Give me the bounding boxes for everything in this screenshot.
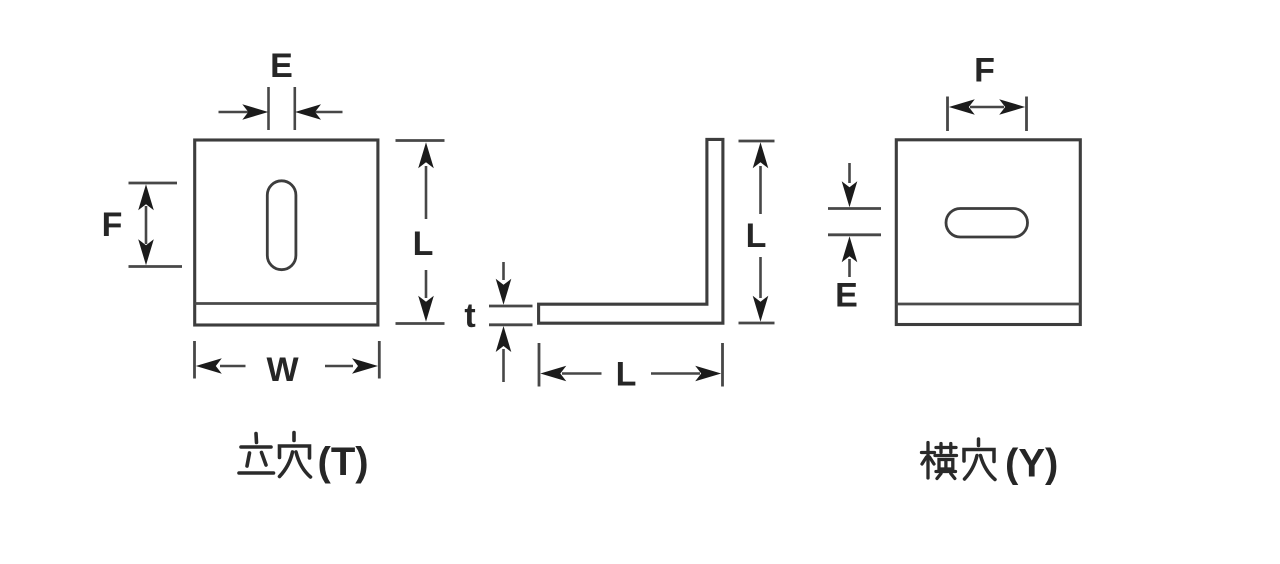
dim L middle right: lower arrow — [759, 257, 762, 298]
dim t: bottom tick — [489, 323, 533, 326]
caption right: kanji ANA (hole) second — [964, 439, 995, 480]
dim L middle right: upper arrow — [759, 166, 762, 214]
dim t: upper arrow — [502, 262, 505, 280]
caption right: kanji YOKO (horizontal) — [922, 443, 957, 479]
left view: fold line — [195, 302, 378, 305]
right view: horizontal slot hole — [946, 209, 1028, 238]
dim L left view: top tick — [396, 139, 445, 142]
dim W: right arrow — [325, 365, 353, 368]
dim t: lower arrow — [502, 349, 505, 382]
left view: bracket plate outline — [195, 140, 378, 325]
dim E: right extension line — [293, 87, 296, 130]
svg-text:W: W — [266, 351, 299, 389]
svg-text:L: L — [413, 225, 434, 263]
dim L left view: upper arrow — [425, 166, 428, 219]
dim F left view: double arrow shaft — [145, 206, 148, 244]
dim W: left arrow — [220, 365, 246, 368]
svg-text:E: E — [270, 47, 293, 85]
dim L middle bottom: right arrow — [651, 372, 700, 375]
dim F left view: bottom tick — [129, 265, 183, 268]
dim F left view: down arrowhead — [138, 239, 154, 265]
left view: vertical slot hole — [267, 181, 296, 270]
svg-text:L: L — [616, 356, 637, 394]
dim L middle bottom: right tick — [721, 343, 724, 387]
dim W: left tick — [193, 341, 196, 379]
dim L left view: bottom tick — [396, 322, 445, 325]
dim E right view: bottom tick — [828, 233, 881, 236]
dim F right view: right arrowhead — [999, 99, 1025, 115]
right view: fold line — [896, 303, 1080, 306]
dim L middle right: bottom tick — [739, 322, 775, 325]
dim E right view: top tick — [828, 207, 881, 210]
svg-text:(Y): (Y) — [1005, 442, 1058, 486]
dim E: left extension line — [267, 87, 270, 130]
caption left: kanji ANA (hole) — [280, 433, 311, 478]
dim L left view: lower arrow — [425, 270, 428, 298]
middle side view: L-bracket outline — [539, 139, 723, 323]
dim F right view: right tick — [1025, 97, 1028, 132]
svg-text:F: F — [974, 52, 995, 90]
dim L middle bottom: left tick — [538, 343, 541, 387]
svg-text:L: L — [746, 217, 767, 255]
svg-text:E: E — [835, 277, 858, 315]
svg-text:F: F — [102, 206, 123, 244]
dim E: right arrow — [314, 111, 343, 114]
dim L middle bottom: left arrow — [562, 372, 602, 375]
dim L middle right: top tick — [739, 140, 775, 143]
dim F left view: up arrowhead — [138, 184, 154, 210]
svg-text:(T): (T) — [318, 440, 369, 484]
right view: bracket plate outline — [896, 140, 1080, 325]
dim F right view: double arrow shaft — [970, 106, 1004, 109]
dim F left view: top tick — [129, 182, 178, 185]
dim E right view: lower arrow — [848, 259, 851, 277]
dim t: top tick — [489, 305, 533, 308]
dim E right view: upper arrow — [848, 163, 851, 183]
dim F right view: left arrowhead — [949, 99, 975, 115]
dim W: right tick — [378, 341, 381, 379]
caption left: kanji TATE (stand) — [239, 434, 274, 474]
dim F right view: left tick — [946, 97, 949, 132]
dim E: left arrow — [219, 111, 250, 114]
svg-text:t: t — [464, 297, 475, 335]
